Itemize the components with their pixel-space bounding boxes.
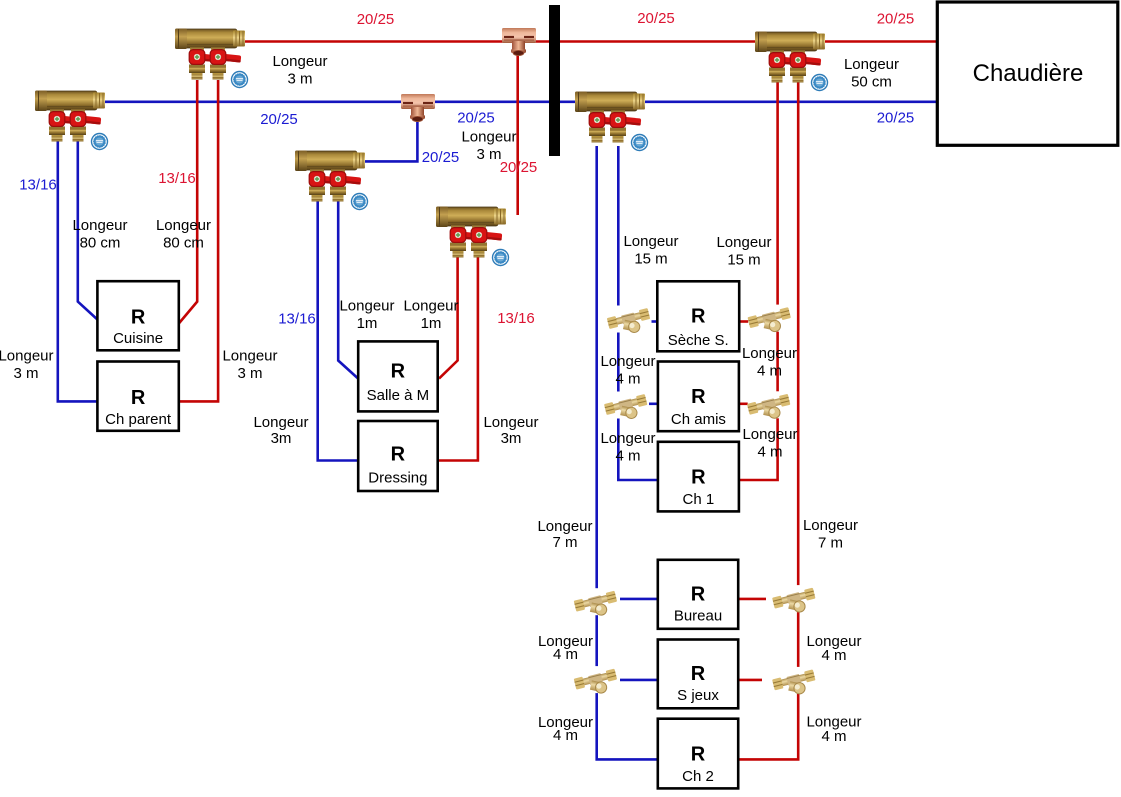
svg-text:Longeur: Longeur xyxy=(803,517,858,534)
svg-text:Longeur: Longeur xyxy=(72,217,127,234)
svg-text:Longeur: Longeur xyxy=(339,298,394,315)
svg-text:20/25: 20/25 xyxy=(500,159,538,176)
svg-text:S jeux: S jeux xyxy=(677,687,719,704)
svg-text:Ch 1: Ch 1 xyxy=(683,491,715,508)
svg-text:13/16: 13/16 xyxy=(497,310,535,327)
svg-text:3m: 3m xyxy=(501,430,522,447)
svg-text:Ch amis: Ch amis xyxy=(671,411,726,428)
svg-text:15 m: 15 m xyxy=(727,252,760,269)
svg-text:Longeur: Longeur xyxy=(272,53,327,70)
svg-text:13/16: 13/16 xyxy=(19,177,57,194)
svg-text:R: R xyxy=(691,663,706,685)
svg-text:Longeur: Longeur xyxy=(0,348,54,365)
svg-text:Longeur: Longeur xyxy=(742,345,797,362)
svg-text:Salle à M: Salle à M xyxy=(367,387,430,404)
svg-text:Longeur: Longeur xyxy=(222,348,277,365)
svg-text:1m: 1m xyxy=(421,315,442,332)
svg-text:Longeur: Longeur xyxy=(623,233,678,250)
svg-text:Longeur: Longeur xyxy=(600,353,655,370)
svg-text:Longeur: Longeur xyxy=(742,426,797,443)
svg-text:3m: 3m xyxy=(271,430,292,447)
svg-text:R: R xyxy=(391,360,406,382)
svg-text:15 m: 15 m xyxy=(634,251,667,268)
svg-text:20/25: 20/25 xyxy=(457,110,495,127)
svg-text:Longeur: Longeur xyxy=(844,56,899,73)
svg-text:Sèche S.: Sèche S. xyxy=(668,332,729,349)
svg-text:3 m: 3 m xyxy=(287,71,312,88)
svg-text:R: R xyxy=(691,305,706,327)
svg-text:Dressing: Dressing xyxy=(368,470,427,487)
svg-text:20/25: 20/25 xyxy=(637,10,675,27)
svg-text:Longeur: Longeur xyxy=(716,234,771,251)
svg-text:4 m: 4 m xyxy=(615,371,640,388)
svg-text:Chaudière: Chaudière xyxy=(973,60,1084,87)
svg-text:7 m: 7 m xyxy=(552,534,577,551)
svg-text:Cuisine: Cuisine xyxy=(113,330,163,347)
svg-text:3 m: 3 m xyxy=(476,146,501,163)
svg-text:13/16: 13/16 xyxy=(158,170,196,187)
svg-text:4 m: 4 m xyxy=(821,728,846,745)
svg-text:R: R xyxy=(131,387,146,409)
svg-text:80 cm: 80 cm xyxy=(163,235,204,252)
svg-text:4 m: 4 m xyxy=(553,646,578,663)
svg-text:50 cm: 50 cm xyxy=(851,74,892,91)
svg-text:Ch 2: Ch 2 xyxy=(682,768,714,785)
svg-text:4 m: 4 m xyxy=(615,448,640,465)
svg-text:4 m: 4 m xyxy=(757,363,782,380)
svg-text:20/25: 20/25 xyxy=(877,11,915,28)
svg-text:13/16: 13/16 xyxy=(278,311,316,328)
svg-text:Longeur: Longeur xyxy=(483,414,538,431)
svg-text:20/25: 20/25 xyxy=(260,111,298,128)
svg-text:4 m: 4 m xyxy=(757,444,782,461)
svg-text:80 cm: 80 cm xyxy=(80,235,121,252)
svg-text:1m: 1m xyxy=(357,315,378,332)
svg-text:Longeur: Longeur xyxy=(253,414,308,431)
svg-text:3 m: 3 m xyxy=(13,365,38,382)
svg-text:Longeur: Longeur xyxy=(537,518,592,535)
svg-text:4 m: 4 m xyxy=(821,647,846,664)
svg-text:R: R xyxy=(691,467,706,489)
svg-text:Longeur: Longeur xyxy=(600,430,655,447)
svg-text:R: R xyxy=(691,743,706,765)
svg-text:20/25: 20/25 xyxy=(877,110,915,127)
svg-text:Longeur: Longeur xyxy=(461,129,516,146)
svg-text:7 m: 7 m xyxy=(818,535,843,552)
svg-text:R: R xyxy=(131,307,146,329)
svg-text:20/25: 20/25 xyxy=(422,149,460,166)
svg-text:Ch parent: Ch parent xyxy=(105,411,172,428)
svg-text:4 m: 4 m xyxy=(553,727,578,744)
svg-text:Bureau: Bureau xyxy=(674,607,722,624)
svg-text:R: R xyxy=(391,444,406,466)
svg-text:R: R xyxy=(691,583,706,605)
svg-text:3 m: 3 m xyxy=(237,365,262,382)
svg-text:R: R xyxy=(691,386,706,408)
svg-text:Longeur: Longeur xyxy=(156,217,211,234)
svg-text:20/25: 20/25 xyxy=(357,11,395,28)
svg-text:Longeur: Longeur xyxy=(403,298,458,315)
